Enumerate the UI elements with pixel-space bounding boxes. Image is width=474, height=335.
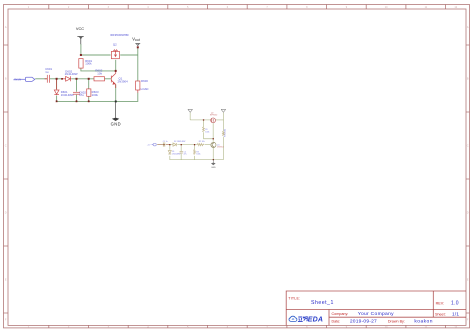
svg-text:1N4148W: 1N4148W bbox=[61, 93, 74, 97]
svg-text:VCC: VCC bbox=[76, 26, 84, 31]
svg-text:1u: 1u bbox=[45, 70, 49, 74]
svg-text:D: D bbox=[5, 212, 7, 215]
svg-text:R600: R600 bbox=[141, 79, 148, 83]
svg-text:koakon: koakon bbox=[414, 319, 432, 325]
svg-text:R2 10k: R2 10k bbox=[199, 141, 205, 143]
svg-text:1N4148W: 1N4148W bbox=[65, 72, 78, 76]
svg-text:Vout: Vout bbox=[132, 37, 140, 43]
svg-text:Sheet_1: Sheet_1 bbox=[311, 300, 334, 306]
svg-text:C: C bbox=[467, 145, 469, 148]
svg-text:2019-09-27: 2019-09-27 bbox=[350, 319, 377, 325]
svg-text:Date:: Date: bbox=[332, 320, 341, 324]
svg-text:100k: 100k bbox=[196, 154, 200, 156]
svg-text:TITLE:: TITLE: bbox=[288, 296, 300, 300]
svg-text:Drawn By:: Drawn By: bbox=[388, 320, 405, 324]
svg-text:C: C bbox=[5, 145, 7, 148]
svg-text:2N3904: 2N3904 bbox=[217, 147, 224, 149]
svg-text:1.0: 1.0 bbox=[451, 300, 459, 306]
svg-text:Company:: Company: bbox=[332, 312, 349, 316]
svg-text:100k: 100k bbox=[92, 93, 99, 97]
svg-text:R4 LOAD: R4 LOAD bbox=[224, 128, 227, 137]
svg-text:2N3904: 2N3904 bbox=[118, 80, 129, 84]
svg-text:47u: 47u bbox=[79, 93, 84, 97]
svg-text:47u: 47u bbox=[184, 154, 187, 156]
svg-text:Sheet:: Sheet: bbox=[435, 312, 446, 316]
svg-text:Your Company: Your Company bbox=[358, 311, 394, 317]
svg-text:100k: 100k bbox=[85, 62, 92, 66]
svg-text:1/1: 1/1 bbox=[452, 311, 459, 317]
svg-text:EDA: EDA bbox=[308, 317, 324, 324]
svg-text:D: D bbox=[467, 212, 469, 215]
svg-text:D2 1N4148W: D2 1N4148W bbox=[174, 141, 186, 143]
svg-text:IRF9530: IRF9530 bbox=[210, 115, 217, 117]
svg-text:GND: GND bbox=[111, 122, 121, 127]
svg-text:GND: GND bbox=[211, 167, 216, 169]
svg-text:Q2: Q2 bbox=[113, 42, 117, 46]
svg-text:1N4148W: 1N4148W bbox=[172, 153, 181, 155]
svg-text:10k: 10k bbox=[97, 72, 102, 76]
svg-text:REV:: REV: bbox=[436, 301, 444, 305]
svg-text:LOAD: LOAD bbox=[141, 87, 149, 91]
svg-text:IRF9530NPBF: IRF9530NPBF bbox=[110, 33, 129, 37]
svg-text:C1 1u: C1 1u bbox=[163, 141, 168, 143]
svg-text:100k: 100k bbox=[205, 131, 209, 133]
